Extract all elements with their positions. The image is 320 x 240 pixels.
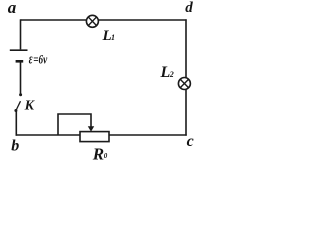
wire top left segment a to L1 — [21, 19, 87, 21]
wire right lower segment L2 to c — [185, 89, 187, 135]
rheostat R0 box — [80, 132, 109, 142]
svg-text:K: K — [24, 99, 36, 114]
wire left lower segment b to switch — [15, 111, 17, 136]
label R0 — [92, 144, 108, 163]
battery short plate (negative) — [16, 60, 24, 63]
lamp L1 — [86, 15, 98, 27]
switch K blade — [16, 101, 20, 109]
svg-text:2: 2 — [169, 70, 174, 79]
svg-text:c: c — [187, 133, 194, 150]
wire left from battery up to a — [20, 19, 22, 49]
svg-text:d: d — [185, 0, 193, 16]
switch K pivot dot — [14, 109, 17, 112]
svg-text:=6v: =6v — [33, 52, 47, 67]
svg-text:a: a — [8, 0, 17, 17]
rheostat slider arrowhead — [88, 126, 94, 131]
wire bottom right segment c to R0 — [109, 134, 187, 136]
lamp L2 — [178, 78, 190, 90]
battery long plate (positive) — [10, 49, 28, 51]
wire bottom left segment R0 to b — [16, 134, 80, 136]
rheostat slider tap wire — [58, 114, 91, 136]
label L1 — [102, 28, 116, 44]
svg-text:1: 1 — [111, 33, 115, 42]
switch K top contact dot — [19, 93, 22, 96]
wire right upper segment d to L2 — [185, 19, 187, 78]
wire top right segment L1 to d — [98, 19, 186, 21]
svg-text:R: R — [92, 144, 104, 163]
label L2 — [160, 64, 174, 81]
label epsilon = 6v — [29, 51, 48, 67]
svg-text:b: b — [11, 138, 19, 155]
svg-text:0: 0 — [104, 152, 108, 160]
wire left from switch dot up to battery — [20, 62, 22, 94]
